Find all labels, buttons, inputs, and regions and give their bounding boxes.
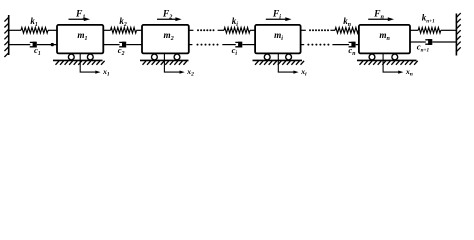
svg-text:ki: ki bbox=[232, 16, 239, 28]
damper ci cylinder bbox=[235, 42, 241, 46]
svg-text:Fn: Fn bbox=[373, 9, 384, 21]
coordinate axis xi bbox=[278, 53, 294, 72]
svg-text:x2: x2 bbox=[186, 67, 194, 77]
wire stub from mi top row bbox=[301, 29, 306, 31]
svg-text:i: i bbox=[281, 36, 283, 42]
force Fi arrow bbox=[266, 18, 287, 20]
svg-text:k1: k1 bbox=[30, 16, 38, 28]
ground under m1 bbox=[53, 59, 103, 61]
continuation dots top row m2-mi bbox=[197, 29, 199, 31]
mass mi bbox=[255, 25, 301, 54]
svg-text:m: m bbox=[274, 30, 281, 40]
spring ki bbox=[218, 29, 224, 31]
damper cn+1 piston bbox=[428, 39, 432, 45]
damper c1 cylinder bbox=[30, 42, 36, 46]
coordinate axis xn bbox=[383, 53, 399, 72]
damper ci piston bbox=[238, 42, 242, 48]
damper c2 piston bbox=[122, 42, 126, 48]
svg-text:m: m bbox=[77, 30, 84, 40]
mass m2 bbox=[142, 25, 189, 54]
mass mn bbox=[359, 25, 410, 54]
damper cn cylinder bbox=[349, 42, 355, 46]
spring k2 bbox=[103, 29, 110, 31]
svg-text:cn+1: cn+1 bbox=[417, 42, 430, 54]
damper cn+1 cylinder bbox=[425, 40, 431, 44]
wheel left of m2 bbox=[152, 54, 158, 60]
spring kn bbox=[330, 29, 335, 31]
wheel right of m2 bbox=[174, 54, 180, 60]
damper c1 piston bbox=[33, 42, 37, 48]
wheel right of mi bbox=[286, 54, 292, 60]
left wall bbox=[8, 15, 10, 55]
force Fn arrow bbox=[368, 18, 389, 20]
svg-text:kn: kn bbox=[343, 16, 351, 28]
junction dot at m1 bbox=[51, 43, 54, 46]
wheel left of mi bbox=[264, 54, 270, 60]
spring kn+1 bbox=[410, 29, 418, 31]
force F1 arrow bbox=[69, 18, 86, 20]
coordinate axis x1 bbox=[80, 53, 96, 72]
damper cn+1 rod left bbox=[410, 41, 426, 43]
svg-text:1: 1 bbox=[85, 36, 88, 42]
svg-text:F1: F1 bbox=[75, 9, 86, 21]
svg-text:kn+1: kn+1 bbox=[422, 13, 435, 25]
spring k1 bbox=[9, 29, 21, 31]
svg-text:m: m bbox=[164, 30, 171, 40]
continuation dots bottom row mi-mn bbox=[307, 44, 309, 46]
force F2 arrow bbox=[157, 18, 177, 20]
coordinate axis x2 bbox=[164, 53, 180, 72]
wheel left of mn bbox=[369, 54, 375, 60]
continuation dots top row mi-mn bbox=[309, 29, 311, 31]
svg-text:xi: xi bbox=[300, 67, 307, 77]
ground under m2 bbox=[140, 59, 189, 61]
svg-text:Fi: Fi bbox=[272, 9, 281, 21]
wire stub from mi bottom row bbox=[301, 44, 305, 46]
svg-text:2: 2 bbox=[170, 36, 174, 42]
mass m1 bbox=[57, 25, 103, 54]
wheel left of m1 bbox=[68, 54, 74, 60]
damper c1 rod right bbox=[37, 44, 57, 46]
damper ci rod right bbox=[242, 44, 255, 46]
damper c1 rod left bbox=[9, 44, 31, 46]
damper cn+1 rod right bbox=[432, 41, 456, 43]
svg-text:xn: xn bbox=[405, 67, 413, 77]
svg-text:k2: k2 bbox=[119, 16, 127, 28]
wheel right of mn bbox=[392, 54, 398, 60]
damper cn rod right bbox=[356, 44, 359, 46]
damper ci rod left bbox=[222, 44, 236, 46]
damper c2 cylinder bbox=[119, 42, 125, 46]
damper c2 rod left bbox=[103, 44, 119, 46]
damper c2 rod right bbox=[126, 44, 142, 46]
svg-text:F2: F2 bbox=[162, 9, 173, 21]
wire stub from m2 bottom row bbox=[189, 44, 193, 46]
damper cn piston bbox=[351, 42, 355, 48]
svg-text:c1: c1 bbox=[34, 45, 41, 57]
ground under mi bbox=[253, 59, 303, 61]
svg-text:x1: x1 bbox=[102, 67, 110, 77]
damper cn rod left bbox=[332, 44, 349, 46]
wheel right of m1 bbox=[87, 54, 93, 60]
svg-text:n: n bbox=[387, 36, 391, 42]
continuation dots bottom row m2-mi bbox=[197, 44, 199, 46]
wire stub from m2 top row bbox=[189, 29, 194, 31]
right wall bbox=[455, 14, 457, 56]
svg-text:m: m bbox=[379, 30, 386, 40]
ground under mn bbox=[357, 59, 417, 61]
